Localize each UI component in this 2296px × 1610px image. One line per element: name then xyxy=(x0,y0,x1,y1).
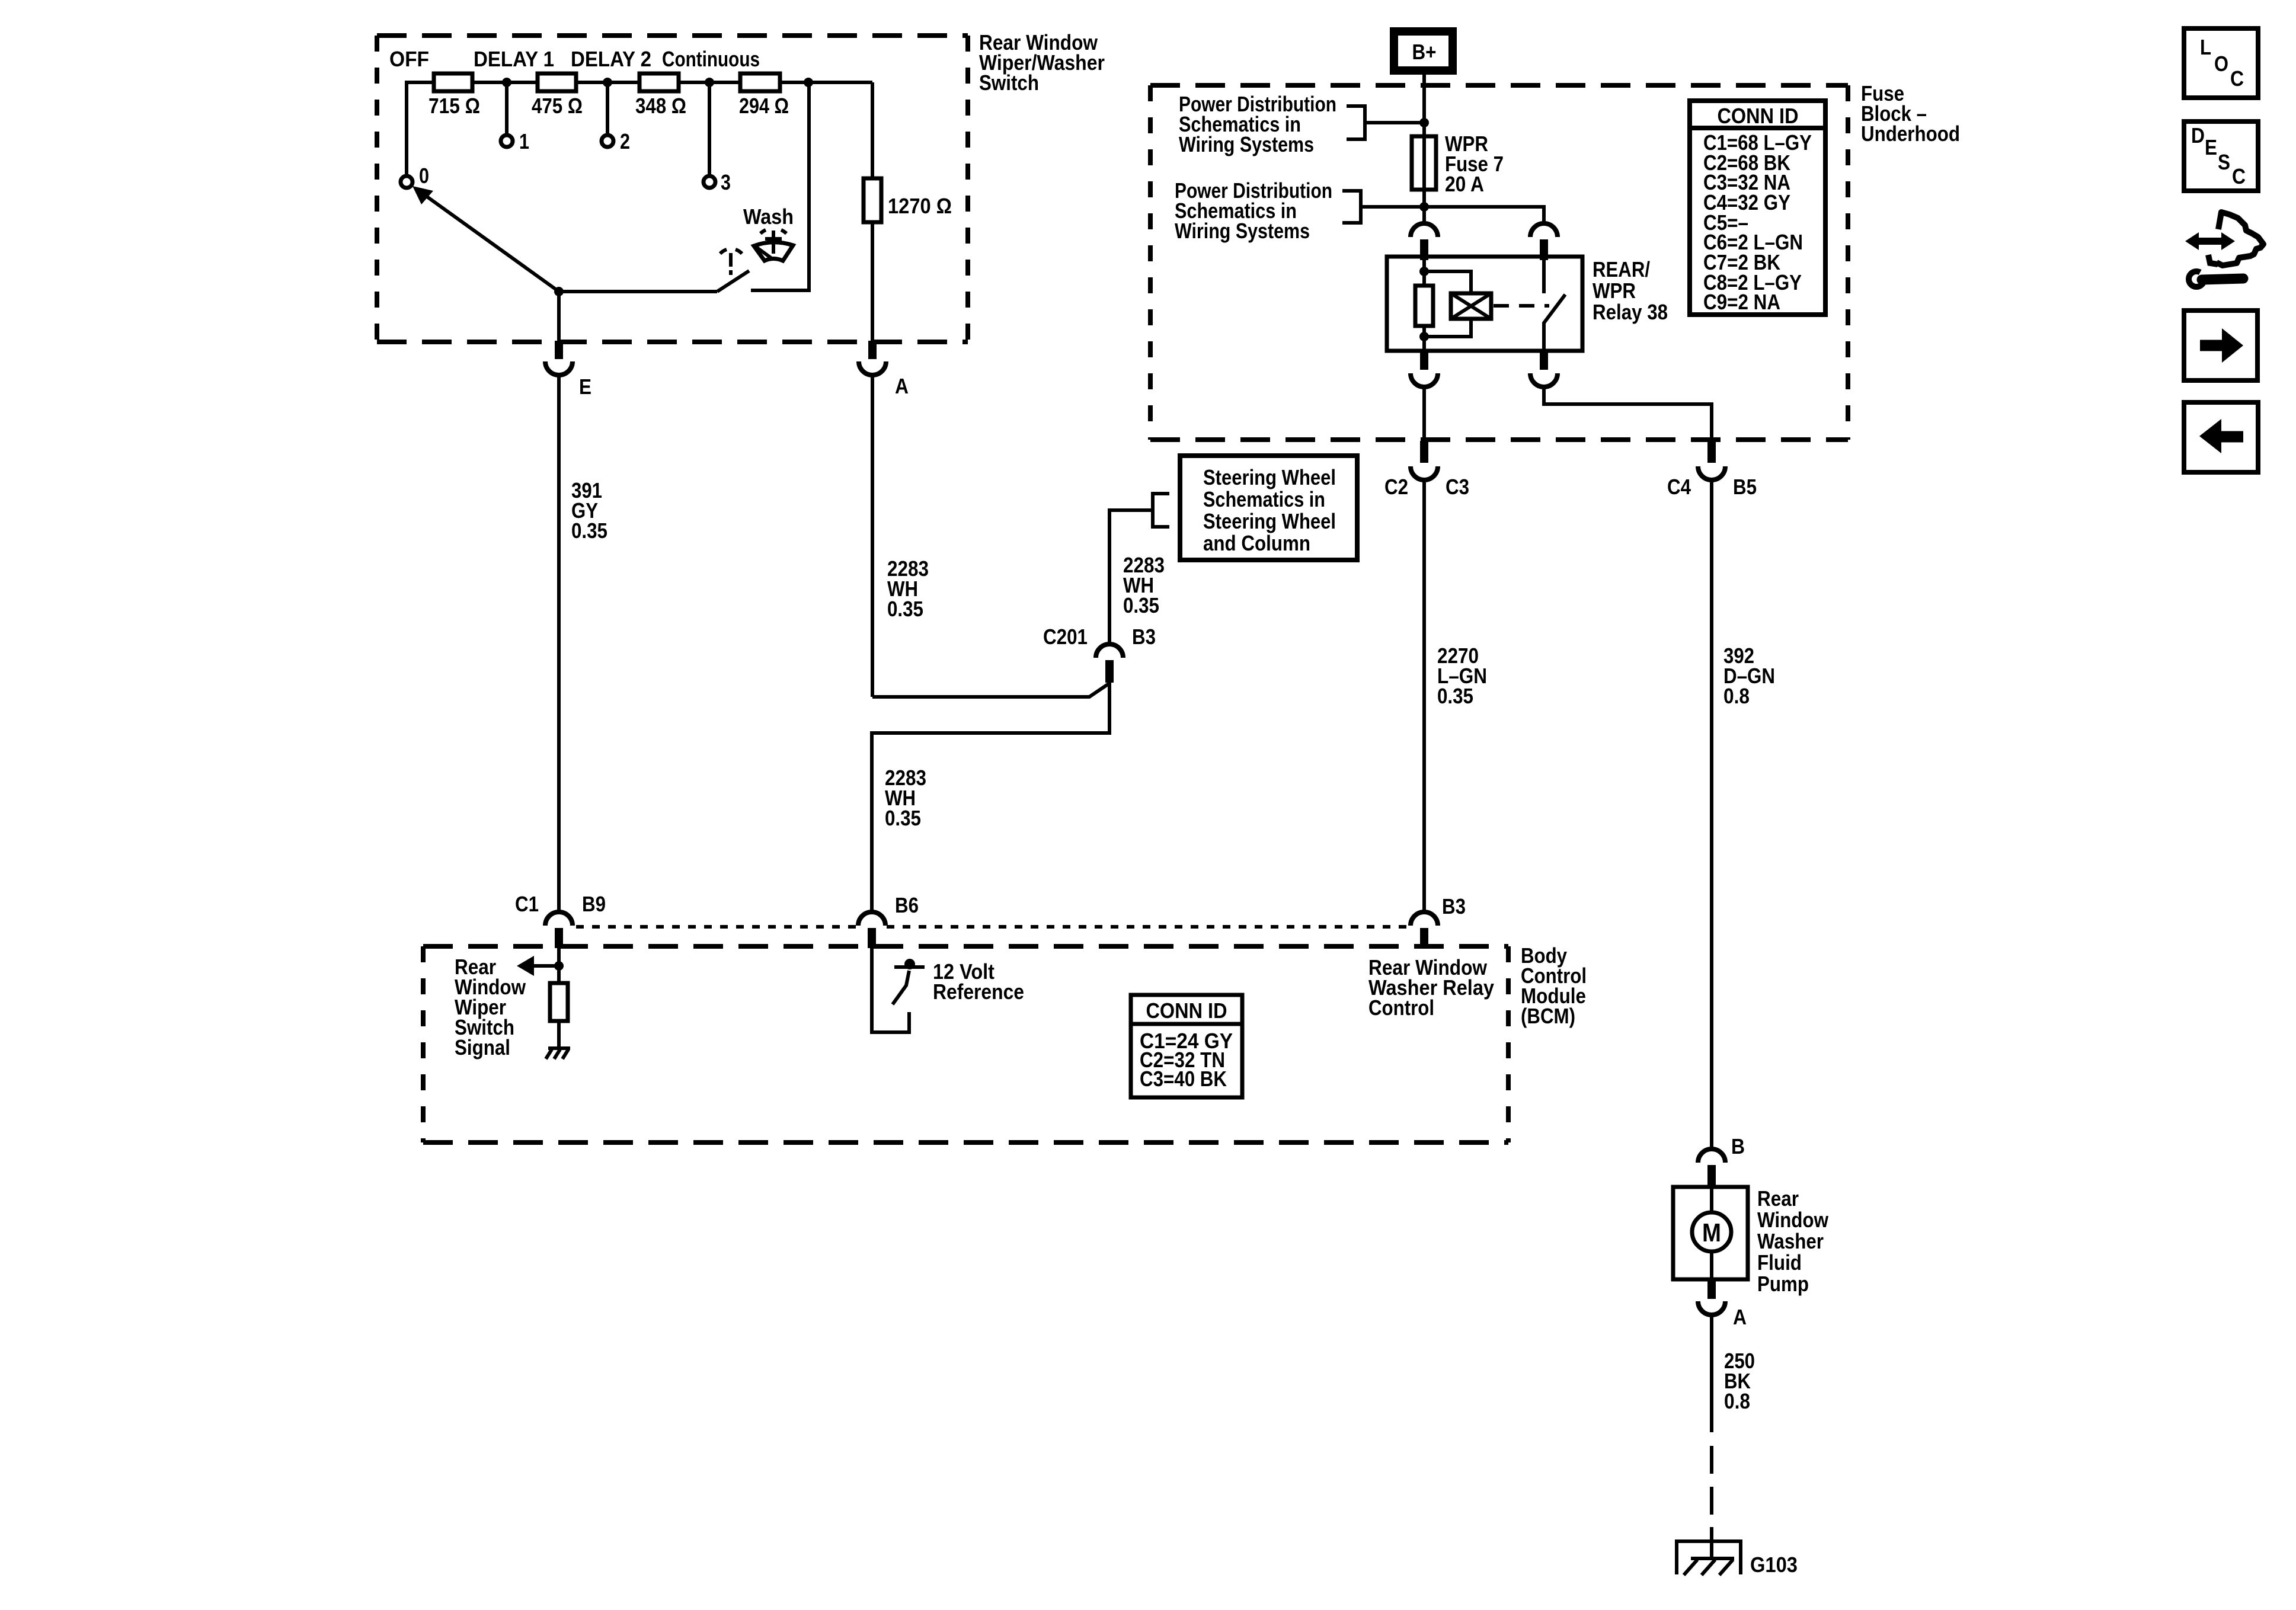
connector C4/B5 xyxy=(1667,441,1757,499)
svg-text:1: 1 xyxy=(519,129,529,153)
svg-text:Steering Wheel: Steering Wheel xyxy=(1203,509,1336,533)
steering wheel callout box xyxy=(1180,456,1357,560)
svg-text:Fluid: Fluid xyxy=(1757,1250,1802,1275)
body control module box (dashed) xyxy=(423,946,1508,1142)
svg-text:B: B xyxy=(1731,1134,1745,1158)
wire: B9 stub to node xyxy=(557,948,561,983)
switch box label xyxy=(979,30,1105,95)
wire: common junction down to pin E xyxy=(557,292,561,342)
BCM interconnect dotted line xyxy=(576,925,1409,929)
fuse block underhood box (dashed) xyxy=(1150,85,1848,440)
svg-text:B+: B+ xyxy=(1412,40,1437,64)
svg-text:CONN ID: CONN ID xyxy=(1718,104,1799,128)
wire: bus corner down to 1270 resistor xyxy=(871,82,874,178)
ground G103 xyxy=(1675,1539,1798,1577)
wire stub to terminal 1 xyxy=(505,82,509,135)
terminal 3 xyxy=(703,170,731,194)
pump internal wire top xyxy=(1710,1187,1713,1212)
terminal 0 xyxy=(401,164,429,188)
wire: pin A down xyxy=(871,376,874,697)
wash switch wire xyxy=(559,290,717,293)
wire: pump A down xyxy=(1710,1316,1713,1432)
pump internal wire bottom xyxy=(1710,1251,1713,1279)
wire label 392 D-GN 0.8 xyxy=(1723,644,1775,708)
node: power distribution tap 2 xyxy=(1419,202,1429,212)
relay movable contact blade xyxy=(1544,295,1565,351)
connector B3 xyxy=(1411,894,1466,948)
wire: resistor to ground xyxy=(557,1021,561,1048)
relay switch output connector xyxy=(1530,351,1558,387)
svg-text:M: M xyxy=(1702,1218,1721,1247)
svg-text:C9=2 NA: C9=2 NA xyxy=(1703,290,1780,314)
junction after 715 xyxy=(502,78,511,87)
connector C1/B9 xyxy=(515,892,606,948)
wire: bracket to C201 xyxy=(1109,510,1153,643)
wire: C4/B5 to pump B xyxy=(1710,481,1713,1148)
svg-text:A: A xyxy=(895,374,909,398)
wire label 2283 WH 0.35 (B6 side) xyxy=(885,766,926,830)
svg-text:Reference: Reference xyxy=(933,980,1024,1004)
svg-text:0.35: 0.35 xyxy=(571,518,607,543)
wash switch fixed contact wire xyxy=(751,84,809,290)
svg-text:O: O xyxy=(2214,52,2228,76)
svg-text:Wiring Systems: Wiring Systems xyxy=(1179,132,1314,156)
callout 2: power distribution schematics xyxy=(1175,178,1424,243)
svg-text:0.8: 0.8 xyxy=(1724,1389,1750,1413)
relay coil branch wires xyxy=(1424,271,1471,337)
wire label 2270 L-GN 0.35 xyxy=(1437,644,1487,708)
svg-text:DELAY 2: DELAY 2 xyxy=(571,47,651,71)
connector pump A xyxy=(1698,1279,1747,1329)
node: power distribution tap 1 xyxy=(1419,118,1429,127)
svg-text:Wash: Wash xyxy=(743,204,794,229)
svg-text:D: D xyxy=(2191,123,2205,148)
svg-text:(BCM): (BCM) xyxy=(1521,1004,1575,1028)
svg-text:475 Ω: 475 Ω xyxy=(532,94,583,118)
svg-text:Relay 38: Relay 38 xyxy=(1593,300,1668,324)
svg-text:0.8: 0.8 xyxy=(1723,684,1750,708)
resistor 294 ohm xyxy=(739,73,789,118)
relay coil input connector xyxy=(1411,223,1438,260)
12 volt reference label xyxy=(933,959,1024,1004)
next page arrow icon xyxy=(2184,311,2257,380)
relay actuator dashed link xyxy=(1494,304,1549,308)
BCM label xyxy=(1521,943,1587,1028)
position labels xyxy=(389,47,760,71)
common junction of switch xyxy=(554,287,564,296)
svg-text:A: A xyxy=(1733,1305,1747,1329)
connector pump B xyxy=(1698,1134,1745,1188)
wiper icon xyxy=(754,230,793,261)
svg-text:0.35: 0.35 xyxy=(885,806,921,830)
relay label xyxy=(1593,257,1668,324)
fuse block label xyxy=(1861,81,1960,146)
relay internal wire bottom xyxy=(1422,326,1426,351)
rear window wiper/washer switch box (dashed) xyxy=(377,36,968,342)
svg-text:Schematics in: Schematics in xyxy=(1203,487,1325,511)
node: wiper switch signal xyxy=(554,961,564,971)
svg-text:L: L xyxy=(2200,35,2211,59)
resistor 475 ohm xyxy=(532,73,583,118)
motor M xyxy=(1692,1212,1731,1251)
relay resistor xyxy=(1415,286,1433,326)
svg-text:Washer: Washer xyxy=(1757,1229,1824,1253)
svg-text:B3: B3 xyxy=(1442,894,1466,918)
BCM pull resistor xyxy=(550,983,568,1021)
svg-text:Rear: Rear xyxy=(1757,1186,1799,1211)
connector C2/C3 xyxy=(1384,441,1469,499)
wire: resistor ladder bus xyxy=(407,82,872,176)
callout 1: power distribution schematics xyxy=(1179,92,1424,156)
svg-text:3: 3 xyxy=(721,170,731,194)
svg-text:C201: C201 xyxy=(1043,625,1088,649)
relay coil output connector xyxy=(1411,351,1438,387)
svg-text:CONN ID: CONN ID xyxy=(1146,998,1227,1023)
wire label 2283 WH 0.35 (steering side) xyxy=(1123,553,1165,617)
resistor 348 ohm xyxy=(635,73,686,118)
CONN ID table BCM xyxy=(1131,995,1242,1097)
wire: tap 2 to relay switch feed xyxy=(1424,207,1544,222)
previous page arrow icon xyxy=(2184,402,2258,472)
wire stub to terminal 2 xyxy=(606,82,609,135)
wire: B+ down through fuse xyxy=(1422,75,1426,222)
wire: A wire to C201 xyxy=(872,683,1109,697)
svg-text:E: E xyxy=(2205,135,2217,159)
junction after 348 xyxy=(705,78,714,87)
svg-text:715 Ω: 715 Ω xyxy=(428,94,480,118)
BCM internal ground xyxy=(546,1048,570,1059)
relay internal wire top xyxy=(1422,257,1426,286)
rear window washer fluid pump box xyxy=(1673,1187,1748,1279)
svg-text:REAR/: REAR/ xyxy=(1593,257,1650,281)
wire: C2/C3 to BCM B3 xyxy=(1422,481,1426,911)
relay internal node top xyxy=(1419,267,1429,276)
svg-text:Switch: Switch xyxy=(979,71,1039,95)
relay 38 box xyxy=(1387,257,1582,351)
svg-text:OFF: OFF xyxy=(389,47,429,71)
svg-text:Wiring Systems: Wiring Systems xyxy=(1175,219,1310,243)
wire: pin E to BCM C1/B9 xyxy=(557,376,561,911)
diagnostic car icon xyxy=(2185,212,2263,287)
svg-text:Steering Wheel: Steering Wheel xyxy=(1203,465,1336,489)
signal label xyxy=(455,955,526,1060)
junction after 294 xyxy=(804,78,813,87)
washer relay control label xyxy=(1368,955,1494,1020)
svg-text:Pump: Pump xyxy=(1757,1272,1809,1296)
svg-text:0: 0 xyxy=(419,164,429,188)
connector B6 xyxy=(858,893,919,948)
svg-text:348 Ω: 348 Ω xyxy=(635,94,686,118)
svg-text:C1: C1 xyxy=(515,892,539,916)
svg-text:Continuous: Continuous xyxy=(662,47,760,71)
svg-text:C4: C4 xyxy=(1667,475,1691,499)
resistor 715 ohm xyxy=(428,73,480,118)
svg-text:1270 Ω: 1270 Ω xyxy=(888,194,952,218)
connector pin A xyxy=(859,341,909,398)
svg-text:20 A: 20 A xyxy=(1445,172,1484,196)
svg-text:C: C xyxy=(2230,66,2244,91)
svg-text:C2: C2 xyxy=(1384,475,1408,499)
wire: dashed ground lead xyxy=(1710,1446,1713,1558)
svg-text:WPR: WPR xyxy=(1593,279,1636,303)
svg-text:B3: B3 xyxy=(1132,625,1156,649)
svg-text:B6: B6 xyxy=(895,893,919,917)
wire: relay coil output to fuse block edge xyxy=(1422,388,1426,440)
wire stub to terminal 3 xyxy=(708,82,711,176)
svg-text:B5: B5 xyxy=(1733,475,1757,499)
wire label 250 BK 0.8 xyxy=(1724,1349,1755,1413)
wash switch blade xyxy=(717,271,749,292)
svg-text:C: C xyxy=(2232,164,2246,188)
svg-text:G103: G103 xyxy=(1750,1553,1798,1577)
wire: B6 hook contact xyxy=(872,948,909,1032)
svg-text:S: S xyxy=(2218,150,2230,174)
svg-text:B9: B9 xyxy=(582,892,606,916)
svg-text:E: E xyxy=(579,375,591,399)
CONN ID table fuse block xyxy=(1690,101,1825,315)
12 volt reference symbol xyxy=(893,959,925,1004)
wire label 391 GY 0.35 xyxy=(571,478,607,543)
connector pin E xyxy=(545,341,591,399)
wire: C201 down to B6 drop xyxy=(872,683,1109,911)
svg-text:Control: Control xyxy=(1368,996,1434,1020)
wire: relay switch output to fuse block edge xyxy=(1544,388,1712,440)
svg-text:Underhood: Underhood xyxy=(1861,121,1960,146)
B+ power symbol xyxy=(1394,31,1453,71)
DESC icon xyxy=(2184,121,2258,191)
svg-text:0.35: 0.35 xyxy=(1123,593,1159,617)
svg-text:C3: C3 xyxy=(1446,475,1469,499)
wash dashed tee symbol xyxy=(720,249,742,275)
resistor 1270 ohm xyxy=(864,178,952,222)
relay coil xyxy=(1451,293,1491,319)
terminal 2 xyxy=(602,129,630,153)
svg-text:Window: Window xyxy=(1757,1208,1829,1232)
LOC icon xyxy=(2184,28,2258,98)
signal arrow xyxy=(517,956,555,976)
svg-text:C3=40 BK: C3=40 BK xyxy=(1140,1067,1227,1091)
svg-text:and Column: and Column xyxy=(1203,531,1310,555)
wire label 2283 WH 0.35 (A side) xyxy=(887,556,929,621)
wire: 1270 resistor to pin A xyxy=(871,222,874,342)
svg-text:DELAY 1: DELAY 1 xyxy=(474,47,554,71)
steering wheel bracket xyxy=(1153,494,1169,527)
svg-text:2: 2 xyxy=(620,129,630,153)
relay fixed contact xyxy=(1542,257,1546,293)
fuse WPR Fuse 7 20A xyxy=(1412,132,1504,196)
relay internal node bottom xyxy=(1419,332,1429,341)
junction after 475 xyxy=(603,78,612,87)
pump label xyxy=(1757,1186,1829,1296)
svg-text:0.35: 0.35 xyxy=(887,597,923,621)
terminal 1 xyxy=(501,129,529,153)
rotor arm wire with arrow to terminal 0 xyxy=(412,186,559,292)
svg-text:0.35: 0.35 xyxy=(1437,684,1473,708)
svg-text:294 Ω: 294 Ω xyxy=(739,94,789,118)
relay switch input connector xyxy=(1530,223,1558,260)
inline connector C201 B3 xyxy=(1043,625,1156,683)
svg-text:Signal: Signal xyxy=(455,1035,510,1060)
